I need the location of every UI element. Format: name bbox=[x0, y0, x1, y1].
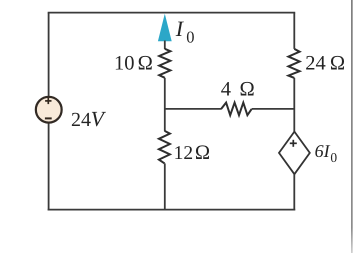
svg-text:6I: 6I bbox=[315, 141, 331, 161]
wire right lower bbox=[293, 174, 295, 210]
resistor 4ohm zigzag bbox=[221, 103, 252, 116]
wire right middle bbox=[293, 78, 295, 133]
resistor 24ohm zigzag bbox=[288, 49, 299, 78]
resistor 10ohm zigzag bbox=[159, 49, 170, 78]
wire left upper bbox=[48, 13, 50, 98]
svg-text:Ω: Ω bbox=[330, 53, 346, 75]
wire bottom bbox=[48, 209, 296, 211]
current arrow I0 bbox=[158, 14, 172, 42]
wire middle branch lower bbox=[164, 163, 166, 210]
wire right upper bbox=[293, 13, 295, 49]
wire top bbox=[48, 12, 296, 14]
svg-text:12: 12 bbox=[174, 143, 194, 164]
svg-text:Ω: Ω bbox=[195, 142, 211, 164]
wire center horizontal left bbox=[165, 108, 221, 110]
svg-text:10: 10 bbox=[114, 53, 135, 75]
svg-text:Ω: Ω bbox=[137, 53, 153, 75]
minus sign in source bbox=[45, 117, 52, 119]
svg-text:V: V bbox=[91, 107, 107, 131]
svg-text:24: 24 bbox=[71, 109, 91, 131]
voltage source V1 circle bbox=[36, 97, 62, 123]
dependent source U1 diamond bbox=[279, 132, 310, 175]
wire left lower bbox=[48, 123, 50, 211]
svg-text:0: 0 bbox=[330, 150, 337, 165]
plus sign in diamond bbox=[290, 140, 297, 147]
svg-text:0: 0 bbox=[186, 27, 194, 46]
svg-text:4: 4 bbox=[221, 79, 231, 101]
svg-text:24: 24 bbox=[305, 53, 326, 75]
wire middle branch under arrow bbox=[164, 41, 166, 50]
svg-text:Ω: Ω bbox=[239, 79, 255, 101]
wire middle branch mid bbox=[164, 78, 166, 131]
resistor 12ohm zigzag bbox=[159, 131, 170, 164]
page right border line bbox=[351, 0, 353, 253]
plus sign in source bbox=[45, 98, 51, 104]
svg-text:I: I bbox=[175, 16, 185, 41]
wire center horizontal right bbox=[252, 108, 295, 110]
